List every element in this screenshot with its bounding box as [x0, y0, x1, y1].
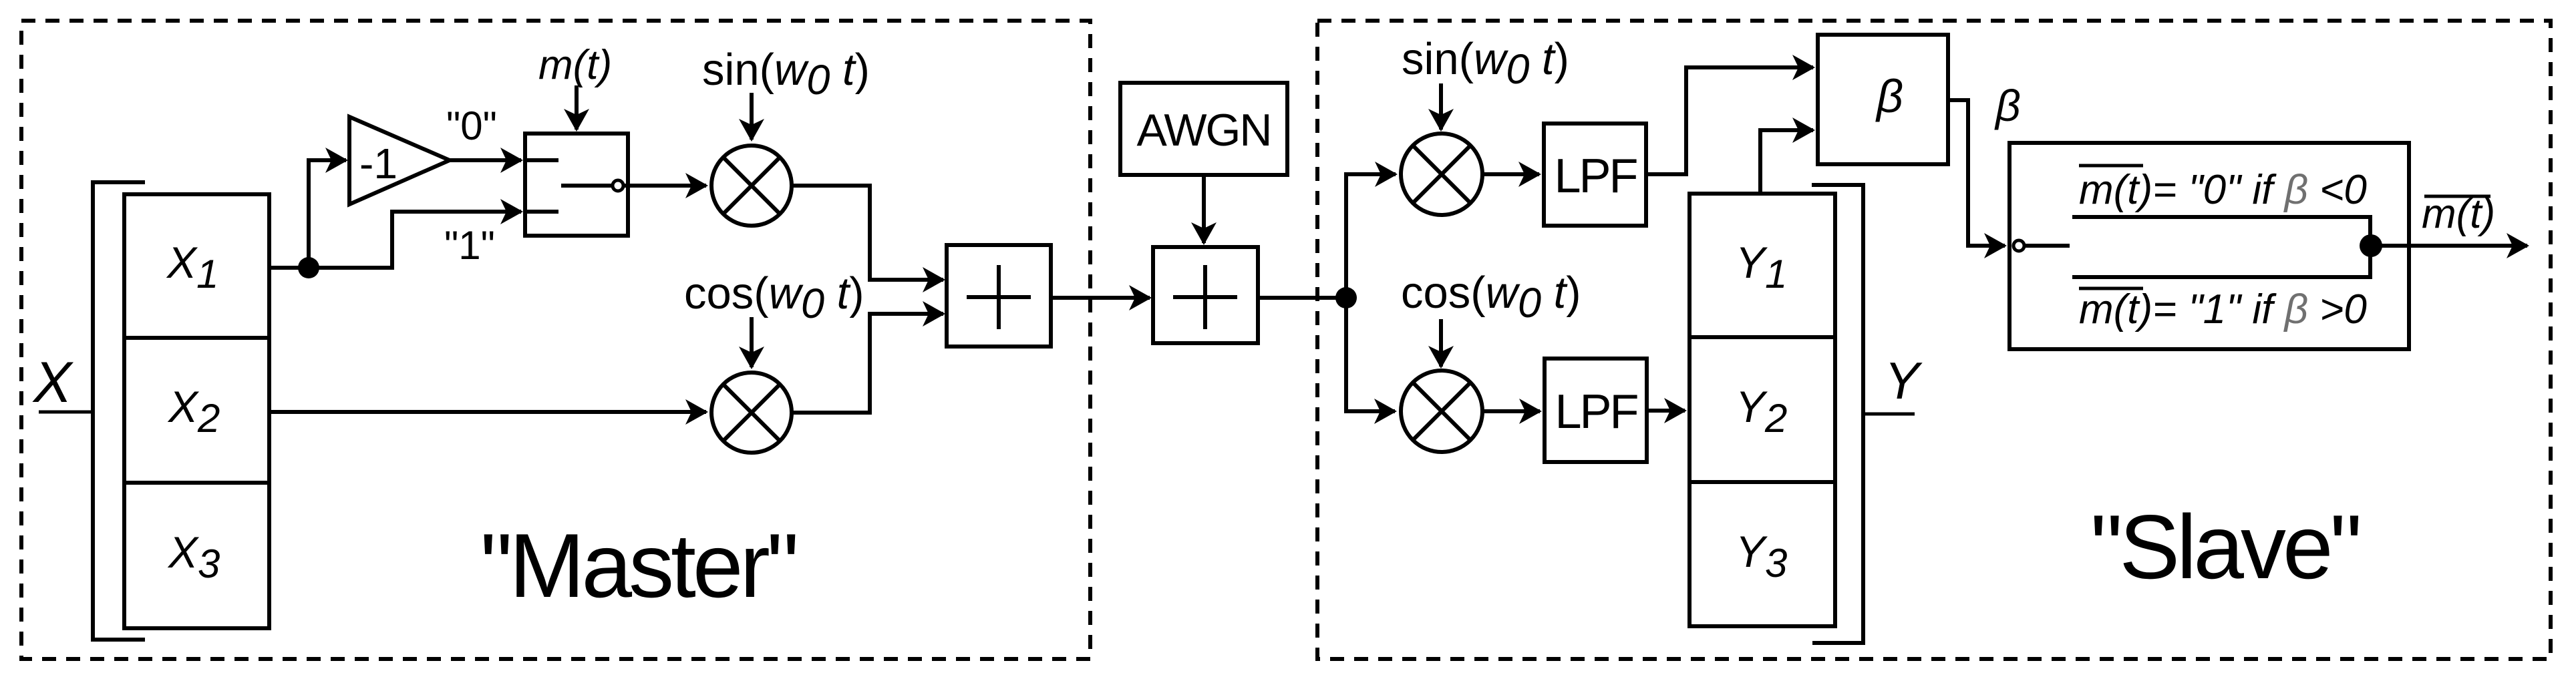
wire LPF2 to Y2 [1647, 409, 1685, 413]
multiplier M3 [1401, 134, 1482, 215]
wire X1 output to "1" branch [269, 212, 521, 268]
filter LPF2 [1545, 359, 1647, 462]
node Y underline [1865, 413, 1915, 416]
multiplier M2 [711, 373, 792, 453]
wire Y1 to beta block [1760, 130, 1813, 195]
decision switch box [2009, 143, 2409, 349]
svg-text:m(t)= "0" if β <0: m(t)= "0" if β <0 [2079, 167, 2367, 213]
wire junction to multiplier M3 [1346, 174, 1396, 298]
svg-text:m(t)= "1" if β >0: m(t)= "1" if β >0 [2079, 286, 2367, 332]
decision input pole circle [2014, 240, 2024, 251]
svg-text:"Slave": "Slave" [2090, 496, 2359, 598]
wire M4 to LPF2 [1482, 409, 1540, 413]
wire junction to inverter [309, 160, 346, 268]
wire sin into M3 [1439, 83, 1443, 130]
svg-text:LPF: LPF [1554, 150, 1637, 203]
wire AWGN to summer S2 [1202, 175, 1206, 243]
wire inverter to switch [450, 158, 521, 162]
bracket X stack [93, 182, 145, 640]
svg-text:Y: Y [1885, 351, 1923, 410]
svg-text:β: β [1994, 81, 2021, 130]
svg-text:sin(w0 t): sin(w0 t) [702, 45, 870, 103]
svg-text:cos(w0 t): cos(w0 t) [1401, 268, 1581, 326]
decision rule 1 overline [2079, 287, 2143, 290]
wire m(t) output [2371, 244, 2527, 248]
svg-text:m(t): m(t) [538, 42, 612, 88]
junction decision output [2360, 234, 2382, 257]
summer S2 [1153, 247, 1258, 343]
wire junction to multiplier M4 [1346, 298, 1395, 411]
label m(t) output overline [2424, 195, 2490, 198]
slave region dashed border [1317, 21, 2551, 659]
filter LPF1 [1544, 124, 1646, 226]
wire cos into M4 [1439, 319, 1443, 367]
register Y1 [1689, 194, 1835, 337]
svg-text:-1: -1 [359, 140, 397, 188]
register X3 [124, 483, 269, 628]
svg-text:X: X [32, 351, 74, 415]
wire switch to multiplier M1 [628, 184, 706, 188]
wire M3 to LPF1 [1482, 172, 1539, 176]
decision upper throw wire [2072, 217, 2370, 246]
svg-text:β: β [1875, 70, 1903, 122]
svg-text:"Master": "Master" [480, 515, 796, 616]
inverter -1 amplifier [349, 117, 450, 204]
summer S1 [947, 245, 1051, 347]
wire M2 to summer S1 [792, 314, 943, 413]
register Y3 [1689, 482, 1835, 626]
node X underline [39, 411, 92, 414]
svg-text:cos(w0 t): cos(w0 t) [684, 268, 864, 327]
multiplier M4 [1401, 371, 1482, 452]
decision lower throw wire [2072, 246, 2370, 277]
svg-text:sin(w0 t): sin(w0 t) [1402, 34, 1569, 93]
multiplier M1 [711, 146, 792, 226]
junction received signal [1335, 287, 1357, 308]
wire cos into M2 [750, 317, 754, 367]
AWGN source box [1120, 83, 1287, 175]
svg-text:"0": "0" [446, 103, 497, 148]
svg-text:LPF: LPF [1555, 385, 1637, 439]
svg-text:"1": "1" [444, 223, 495, 268]
register X1 [124, 194, 269, 338]
correlator beta box [1818, 35, 1948, 164]
register X2 [124, 338, 269, 483]
decision input stub [2024, 244, 2070, 248]
bracket Y stack [1812, 185, 1863, 643]
wire sin into M1 [750, 93, 754, 140]
switch SW1 box [525, 134, 628, 236]
svg-text:m(t): m(t) [2422, 191, 2495, 237]
wire LPF1 to beta block [1646, 67, 1813, 174]
wire beta box to decision switch [1948, 100, 2005, 246]
svg-text:AWGN: AWGN [1136, 105, 1271, 156]
junction X1 output [298, 257, 319, 278]
wire m(t) into switch [575, 85, 579, 130]
register Y2 [1689, 337, 1835, 482]
decision rule 0 overline [2079, 164, 2143, 168]
master region dashed border [21, 21, 1090, 659]
wire S1 to S2 [1051, 296, 1150, 300]
wire S2 to junction [1258, 296, 1346, 300]
wire M1 to summer S1 [792, 186, 943, 280]
wire X2 output to M2 [269, 410, 706, 414]
